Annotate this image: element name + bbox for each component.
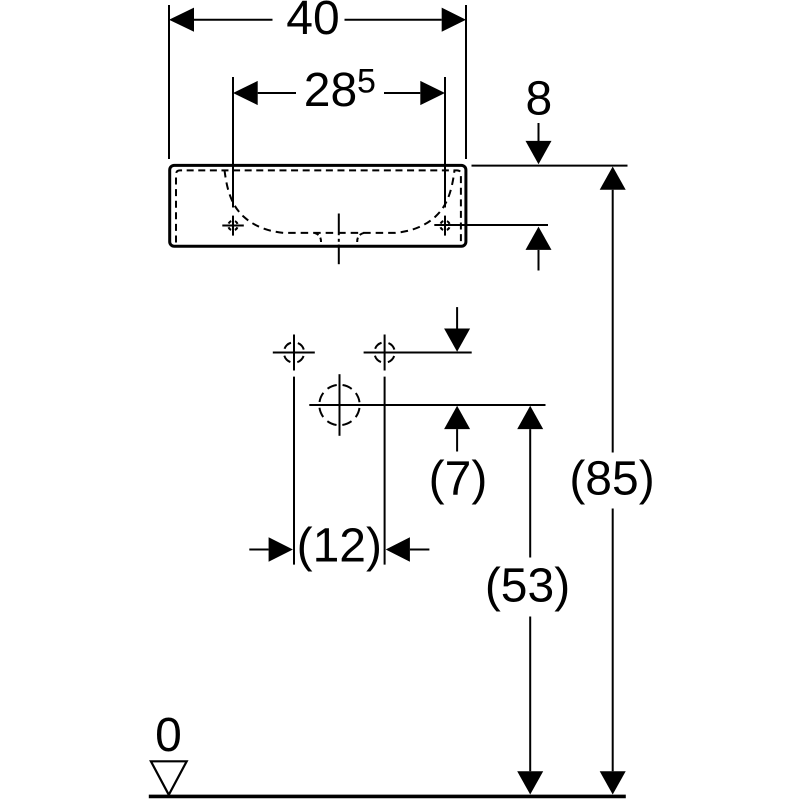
svg-text:5: 5 (357, 62, 376, 100)
svg-text:0: 0 (155, 709, 182, 762)
svg-text:(12): (12) (297, 520, 382, 573)
svg-text:8: 8 (526, 73, 553, 126)
svg-text:28: 28 (304, 64, 357, 117)
svg-text:(53): (53) (485, 559, 570, 612)
svg-text:40: 40 (286, 0, 339, 45)
svg-text:(85): (85) (569, 452, 654, 505)
svg-text:(7): (7) (429, 452, 488, 505)
